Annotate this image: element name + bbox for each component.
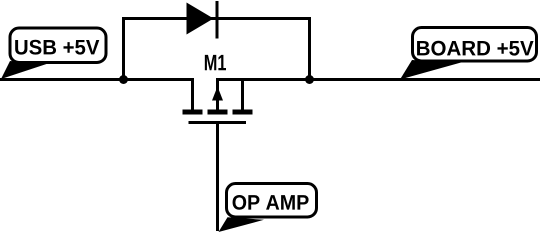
wire: diode branch right leg (308, 17, 311, 80)
callout BOARD +5V tail (400, 60, 461, 80)
wire: main +5V rail left segment (USB side) (0, 78, 194, 81)
transistor M1 label (205, 55, 226, 70)
callout OP AMP tail (219, 217, 265, 232)
callout BOARD +5V text (417, 41, 533, 56)
transistor M1 bulk contact bar (208, 110, 228, 115)
callout USB +5V text (15, 40, 99, 55)
transistor M1 drain contact bar (233, 110, 253, 115)
transistor M1 source contact bar (183, 110, 203, 115)
callout USB +5V box (10, 28, 106, 63)
transistor M1 bulk arrow (212, 87, 223, 101)
wire: diode branch left leg (122, 17, 125, 80)
callout OP AMP text (233, 195, 309, 210)
callout OP AMP box (227, 184, 317, 218)
callout BOARD +5V box (413, 28, 537, 62)
transistor M1 right (drain) lead (241, 78, 244, 110)
diode D1 cathode bar (216, 1, 219, 39)
transistor M1 left (source) lead (191, 78, 194, 110)
wire: main +5V rail right segment (BOARD side) (216, 78, 540, 81)
wire: gate lead down to op amp (216, 123, 219, 232)
callout USB +5V tail (1, 61, 48, 79)
node: junction dot left (rail / diode branch) (119, 75, 128, 84)
diode D1 anode triangle (187, 3, 214, 35)
transistor M1 gate line (189, 121, 247, 124)
node: junction dot right (rail / diode branch) (305, 75, 314, 84)
transistor M1 bulk lead (216, 78, 219, 110)
wire: diode branch top segment (122, 17, 311, 20)
